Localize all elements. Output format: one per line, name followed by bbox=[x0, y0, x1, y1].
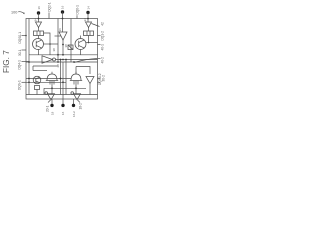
junction DQ3-1 leader bbox=[25, 35, 27, 37]
wire rect M3 top bbox=[76, 67, 90, 75]
leader 30-1 bbox=[22, 49, 27, 51]
junction curve/busB bbox=[73, 61, 75, 63]
pmos dome T2 bbox=[71, 72, 81, 85]
svg-text:16: 16 bbox=[37, 6, 41, 10]
svg-text:36: 36 bbox=[58, 28, 62, 32]
junction U4 out x63 bbox=[62, 59, 64, 61]
leader arrow from label 100 to box bbox=[18, 12, 24, 14]
leader 18-2 bbox=[78, 100, 81, 103]
junction busD x63 bbox=[62, 81, 64, 83]
terminal pad 16 top-mid bbox=[61, 10, 64, 13]
junction mid pad/rail bbox=[62, 18, 64, 20]
svg-text:34: 34 bbox=[33, 18, 37, 22]
transistor Q3 bbox=[33, 76, 41, 84]
wire gate line y66 bbox=[33, 65, 58, 67]
transistor box M2 bbox=[84, 31, 94, 36]
svg-text:100: 100 bbox=[11, 11, 17, 15]
inverter U5 bbox=[86, 77, 94, 84]
wire Q2 collector down bbox=[80, 50, 82, 55]
wire M1 to Q1 bbox=[38, 36, 40, 39]
bubble U4 bbox=[53, 58, 56, 61]
wire M4 down bbox=[36, 90, 38, 95]
transistor box M1 bbox=[34, 31, 44, 36]
bus wire B y62 bbox=[26, 61, 98, 63]
junction U3 output bbox=[62, 44, 64, 46]
leader curve to 40-2 bbox=[74, 59, 97, 63]
wire U4 output bbox=[56, 59, 98, 61]
inner vertical bus wire bbox=[28, 19, 30, 95]
output inverter U6 bbox=[48, 94, 55, 100]
wire pad14 down bbox=[87, 13, 89, 23]
wire to pad 16b bbox=[62, 99, 64, 104]
wire to pad 16-2 bbox=[73, 99, 75, 104]
svg-text:DQS0-1: DQS0-1 bbox=[18, 32, 22, 44]
arrowhead 100 bbox=[23, 12, 25, 14]
column wire x63 low bbox=[62, 62, 64, 99]
svg-text:DQ1-2: DQ1-2 bbox=[101, 31, 105, 41]
diode D1 bbox=[36, 22, 42, 28]
junction busC left bbox=[28, 78, 30, 80]
wire T2 drain bbox=[75, 81, 77, 95]
leader 40-2 bbox=[98, 58, 101, 60]
junction x50/base bbox=[49, 43, 51, 45]
terminal pad 14 top-right bbox=[86, 11, 89, 14]
junction pad14/rail bbox=[87, 18, 89, 20]
column wire x60.5 bbox=[60, 60, 62, 95]
junction x60.5 bubble line bbox=[60, 59, 62, 61]
wire box M3 left leg bbox=[75, 67, 77, 75]
terminal pad 16b bbox=[61, 104, 64, 107]
wire pad to inverter U3 bbox=[62, 12, 64, 32]
wire Q1 collector down bbox=[38, 50, 40, 55]
wire Q1 base lead bbox=[44, 43, 59, 45]
gate line T2 bbox=[70, 80, 82, 82]
svg-text:16: 16 bbox=[61, 5, 65, 9]
leader to label 42 bbox=[92, 24, 100, 27]
wire D1 to box M1 bbox=[38, 28, 40, 32]
svg-text:16: 16 bbox=[61, 111, 65, 115]
junction U4 out x66 bbox=[65, 59, 67, 61]
branch wire x58 bbox=[57, 19, 59, 63]
wire pad16 to node bbox=[38, 13, 40, 22]
terminal pad 16-2 bbox=[72, 104, 75, 107]
wire stub x44 bbox=[43, 88, 45, 94]
wire to pad 18 bbox=[51, 99, 53, 104]
wire M2 right lead bbox=[88, 36, 90, 43]
bubble U7 bbox=[71, 92, 74, 95]
junction x58/busB bbox=[57, 61, 59, 63]
wire U3 output bbox=[62, 40, 64, 55]
column wire x66 bbox=[65, 60, 67, 95]
transistor Q1 bbox=[33, 39, 44, 50]
terminal pad 18 bbox=[50, 104, 53, 107]
bus wire C y78.5 bbox=[26, 78, 71, 80]
svg-text:38: 38 bbox=[52, 48, 56, 52]
wire y88.3 bbox=[44, 87, 86, 89]
svg-text:DQS-1: DQS-1 bbox=[18, 80, 22, 90]
leader 30-2 bbox=[98, 81, 101, 83]
junction busA x63 bbox=[62, 54, 64, 56]
junction busA x58 bbox=[57, 54, 59, 56]
leader 40-1 bbox=[98, 44, 101, 46]
output inverter U7 bbox=[74, 94, 81, 100]
junction pad16/rail bbox=[38, 18, 40, 20]
bus wire D y82.3 bbox=[26, 81, 66, 83]
bus wire A y54.8 bbox=[29, 54, 98, 56]
leader 20-1 bbox=[48, 100, 51, 103]
svg-text:40-2: 40-2 bbox=[101, 57, 105, 64]
leader DQ3-1 bbox=[22, 35, 27, 37]
svg-text:14: 14 bbox=[87, 6, 91, 10]
wire DQ0-1 leader bbox=[76, 15, 78, 18]
wire D2 to box M2 bbox=[88, 28, 90, 32]
wire gate line y70.5 bbox=[33, 70, 47, 72]
transistor Q2 bbox=[75, 39, 86, 50]
leader 30-1b bbox=[98, 78, 101, 80]
junction x88.5/lead bbox=[88, 42, 90, 44]
junction busC x60.5 bbox=[60, 78, 62, 80]
svg-text:18-2: 18-2 bbox=[78, 103, 82, 110]
svg-text:30-2: 30-2 bbox=[102, 75, 106, 82]
transistor box M4 bbox=[35, 86, 40, 90]
gate line T1 bbox=[46, 80, 58, 82]
svg-text:38: 38 bbox=[64, 44, 68, 48]
inner bottom rail wire bbox=[26, 94, 98, 96]
leader DQ4-1 bbox=[22, 61, 30, 63]
outer box 100 bbox=[26, 19, 98, 100]
svg-text:40-1: 40-1 bbox=[101, 44, 105, 51]
inverter U3 bbox=[59, 32, 67, 40]
svg-text:18: 18 bbox=[50, 111, 54, 115]
branch wire x71 bbox=[70, 19, 72, 63]
junction y88.3 x76 bbox=[75, 87, 77, 89]
svg-text:FIG. 7: FIG. 7 bbox=[2, 50, 11, 73]
wire T1 drain bbox=[51, 81, 53, 95]
svg-text:30-1: 30-1 bbox=[18, 49, 22, 56]
resistor R1 bbox=[68, 45, 73, 50]
terminal pad 16 top-left bbox=[37, 11, 40, 14]
svg-text:DQ2-1: DQ2-1 bbox=[47, 2, 51, 12]
junction y88.3 x52 bbox=[51, 87, 53, 89]
wire M2 to Q2 bbox=[80, 36, 82, 39]
bubble U6 bbox=[45, 92, 48, 95]
diode D2 bbox=[86, 22, 92, 28]
pmos dome T1 bbox=[47, 72, 57, 85]
inverter U4 bbox=[42, 56, 53, 63]
leader DQS-1 bbox=[22, 81, 27, 83]
wire stub to U3 bbox=[55, 35, 62, 37]
wire U5 out bbox=[89, 84, 91, 95]
svg-text:DQ4-1: DQ4-1 bbox=[18, 60, 22, 70]
junction busB left bbox=[28, 61, 30, 63]
svg-text:DQ0-1: DQ0-1 bbox=[76, 5, 80, 15]
wire stub x33 bbox=[32, 66, 34, 71]
wire M1 right lead bbox=[44, 33, 51, 55]
svg-text:20-1: 20-1 bbox=[46, 105, 50, 112]
wire Q2 lead to right edge bbox=[86, 42, 98, 44]
svg-text:16-2: 16-2 bbox=[72, 111, 76, 117]
leader DQ1-2 bbox=[98, 35, 101, 37]
junction busD left bbox=[28, 81, 30, 83]
svg-text:42: 42 bbox=[101, 22, 105, 26]
svg-text:34: 34 bbox=[83, 18, 87, 22]
wire DQ2-1 leader bbox=[48, 13, 50, 19]
